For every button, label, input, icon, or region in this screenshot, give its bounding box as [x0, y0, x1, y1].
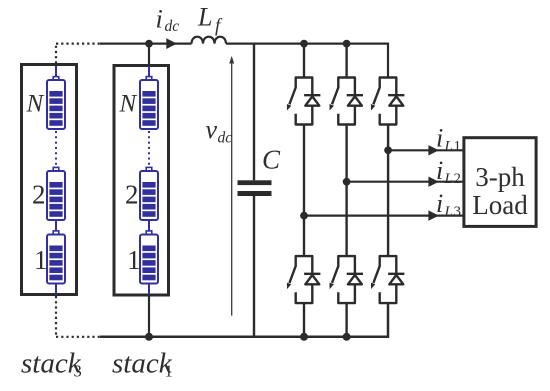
inductor Lf [192, 37, 227, 44]
switch S1 upper leg1 [287, 78, 321, 125]
svg-text:2: 2 [454, 171, 462, 187]
wire top bus dotted segment from stack3 [56, 44, 101, 64]
svg-text:1: 1 [34, 245, 48, 275]
wire capacitor branch bottom [253, 196, 255, 337]
node stack1 top junction [145, 40, 153, 48]
svg-text:3: 3 [74, 362, 82, 381]
battery cell 2 stack3 [47, 167, 65, 220]
svg-text:i: i [436, 156, 443, 185]
wire blue link 2-1 stack1 [148, 220, 150, 231]
svg-text:N: N [26, 91, 45, 118]
wire stack1 top [148, 44, 150, 65]
svg-text:3-ph: 3-ph [475, 162, 525, 192]
wire blue top link stack3 [55, 66, 57, 77]
wire blue bottom link stack3 [55, 284, 57, 295]
svg-text:N: N [119, 91, 138, 118]
wire bottom bus with corner up to leg3 [100, 303, 388, 337]
svg-text:3: 3 [454, 204, 462, 220]
node leg1 bottom junction [300, 333, 308, 341]
svg-text:1: 1 [454, 139, 462, 155]
current arrow i_dc [166, 38, 177, 49]
wire blue bottom link stack1 [148, 284, 150, 295]
wire phase line iL3 [304, 215, 463, 217]
svg-text:1: 1 [165, 362, 173, 381]
svg-text:C: C [262, 145, 281, 175]
switch S6 lower leg3 [371, 256, 405, 303]
node phase A on leg3 [384, 146, 392, 154]
capacitor C plates [238, 180, 272, 185]
wire leg1 middle [303, 125, 305, 257]
stack3 box [22, 65, 77, 295]
svg-text:2: 2 [125, 180, 139, 210]
battery cell N stack3 [47, 77, 65, 129]
switch S2 upper leg2 [330, 78, 364, 125]
wire top bus solid left of inductor [100, 42, 192, 44]
wire leg2 middle [345, 125, 347, 257]
svg-text:2: 2 [32, 180, 46, 210]
wire top bus right of inductor with corner down to leg3 [226, 44, 388, 79]
wire leg1 bottom [303, 303, 305, 337]
svg-text:i: i [156, 5, 163, 34]
node stack1 bottom junction [145, 333, 153, 341]
wire stack1 bottom [148, 296, 150, 337]
battery cell 2 stack1 [140, 167, 158, 220]
node leg1 top junction [300, 40, 308, 48]
svg-text:Load: Load [472, 190, 528, 220]
node leg2 top junction [343, 40, 351, 48]
battery cell 1 stack3 [47, 231, 65, 284]
switch S4 lower leg1 [287, 256, 321, 303]
svg-text:L: L [444, 204, 453, 220]
wire phase line iL1 [388, 149, 463, 151]
svg-text:1: 1 [127, 245, 141, 275]
stack3 internal wires [55, 66, 57, 295]
wire blue dotted link N-2 stack1 [148, 131, 150, 167]
switch S5 lower leg2 [330, 256, 364, 303]
node phase C on leg1 [300, 212, 308, 220]
node phase B on leg2 [343, 178, 351, 186]
wire blue top link stack1 [148, 66, 150, 77]
wire leg2 bottom [345, 303, 347, 337]
svg-text:v: v [206, 115, 218, 144]
stack1 internal wires [148, 66, 150, 295]
wire leg2 top [345, 44, 347, 79]
wire capacitor branch top [253, 44, 255, 181]
svg-text:dc: dc [165, 18, 180, 35]
v_dc measurement arrow [231, 60, 233, 316]
switch S3 upper leg3 [371, 78, 405, 125]
wire phase line iL2 [347, 181, 463, 183]
wire blue dotted link N-2 stack3 [55, 131, 57, 167]
battery cell N stack1 [140, 77, 158, 129]
svg-text:L: L [444, 139, 453, 155]
battery cell 1 stack1 [140, 231, 158, 284]
wire blue link 2-1 stack3 [55, 220, 57, 231]
node leg2 bottom junction [343, 333, 351, 341]
wire leg3 middle [387, 125, 389, 257]
svg-text:dc: dc [218, 130, 233, 147]
stack1 box [114, 66, 169, 296]
wire leg1 top [303, 44, 305, 79]
load box [464, 138, 536, 227]
svg-text:i: i [436, 189, 443, 218]
svg-text:L: L [444, 171, 453, 187]
svg-text:L: L [197, 3, 212, 32]
svg-text:i: i [436, 124, 443, 153]
wire bottom bus dotted segment from stack3 [56, 296, 101, 337]
